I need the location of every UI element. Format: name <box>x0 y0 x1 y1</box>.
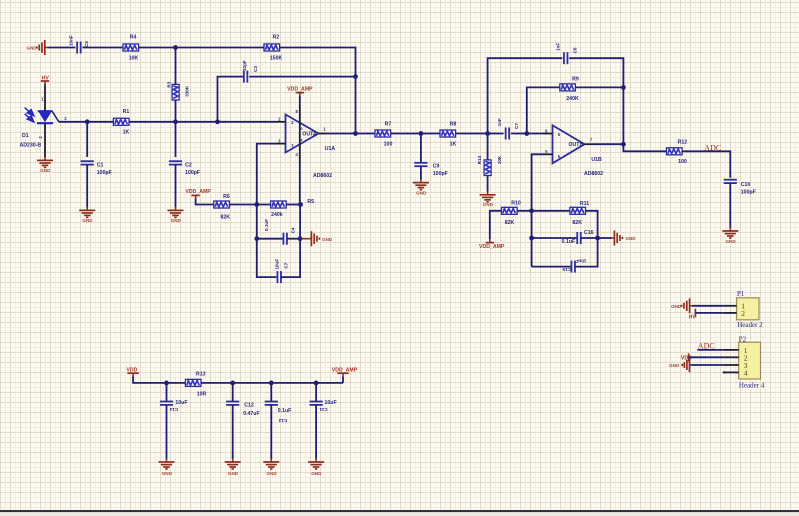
value 10uF (C6) <box>274 259 279 270</box>
junction output node <box>353 131 358 136</box>
wire C6 loop right <box>281 239 300 277</box>
wire R7 to R8 <box>391 133 440 135</box>
designator R11 <box>580 201 589 207</box>
wire R5 to ground vertical <box>286 204 300 206</box>
pin 2 P2 <box>724 353 748 362</box>
capacitor C6 <box>277 271 281 283</box>
resistor R9 <box>560 84 576 91</box>
power port VDD_AMP (R10) <box>479 239 505 250</box>
svg-text:0.1uF: 0.1uF <box>264 219 269 231</box>
power port VDD bottom rail <box>126 368 138 377</box>
header P1 <box>737 298 759 320</box>
svg-text:U1A: U1A <box>325 146 336 152</box>
svg-text:C5: C5 <box>84 41 89 47</box>
power port VDD_AMP rail right <box>332 368 358 383</box>
designator C4 <box>290 227 295 233</box>
ground GND under C1 <box>79 207 95 223</box>
wire U1A pin4 down to ground net <box>299 163 301 205</box>
value 1K (R1) <box>123 130 130 136</box>
designator C16 <box>584 230 594 236</box>
wire C9 upper <box>420 134 422 163</box>
wire VDD to P2 pin2 <box>689 356 724 358</box>
designator C6 <box>284 262 289 268</box>
ground GND at P2 pin3 <box>669 358 689 373</box>
svg-text:D1: D1 <box>22 133 29 139</box>
svg-text:150K: 150K <box>270 55 283 61</box>
junction C12 tap <box>230 381 235 386</box>
wire ground vertical segment <box>257 205 300 239</box>
svg-text:R12: R12 <box>678 139 688 145</box>
svg-text:GND: GND <box>671 304 682 309</box>
designator C14 <box>169 407 178 412</box>
pin 3 number U1A <box>278 138 294 148</box>
wire C14 upper <box>166 383 168 402</box>
wire C2 upper <box>175 122 177 157</box>
designator R2 <box>273 35 280 41</box>
wire R12 to C10 <box>682 151 730 178</box>
capacitor C16 <box>577 232 581 244</box>
wire C4 right <box>287 238 300 240</box>
designator C5 <box>84 41 89 47</box>
wire C11 lower <box>315 405 317 459</box>
svg-text:R14: R14 <box>477 155 482 164</box>
value 82K (R11) <box>572 220 582 226</box>
wire R3 bottom <box>175 100 177 122</box>
wire U1B output <box>595 143 624 145</box>
svg-text:82K: 82K <box>572 220 582 226</box>
svg-text:GND: GND <box>26 46 37 51</box>
svg-text:R5: R5 <box>307 199 314 205</box>
junction R14/feedback tap <box>485 131 490 136</box>
svg-text:100pF: 100pF <box>741 189 756 195</box>
value 10K (R4) <box>129 55 139 61</box>
junction R5 right <box>298 202 303 207</box>
value 100 (R12) <box>678 159 687 165</box>
pin 5 number U1B <box>545 149 561 159</box>
wire C3 to feedback vertical <box>249 76 355 78</box>
ground GND at P1 pin1 <box>671 298 692 313</box>
wire C15 right <box>575 238 598 267</box>
svg-text:C7: C7 <box>284 262 289 268</box>
wire R6 to R5 <box>229 204 270 206</box>
svg-text:10R: 10R <box>197 391 207 397</box>
wire C16 left <box>532 237 578 239</box>
svg-text:R11: R11 <box>580 201 589 207</box>
ground GND under D1 <box>37 157 53 173</box>
value 0.47uF (C12) <box>243 411 259 417</box>
resistor R11 <box>570 207 586 214</box>
wire GND to P1 pin1 <box>692 305 723 307</box>
designator C13 <box>278 418 287 423</box>
svg-text:C15: C15 <box>562 267 571 272</box>
svg-text:C12: C12 <box>244 402 254 408</box>
junction C13 tap <box>269 381 274 386</box>
svg-text:R6: R6 <box>223 194 230 200</box>
svg-text:GND: GND <box>82 218 93 223</box>
wire R8 to C7 <box>456 133 504 135</box>
svg-text:10uF: 10uF <box>175 400 187 406</box>
ground GND at C16 <box>598 231 637 246</box>
light arrows D1 <box>25 108 34 122</box>
wire C14 lower <box>166 405 168 459</box>
wire top feedback C8 <box>488 58 563 133</box>
junction C14 tap <box>164 381 169 386</box>
value AD230-B <box>20 142 42 148</box>
designator R14 <box>477 155 482 164</box>
svg-text:C10: C10 <box>741 182 751 188</box>
svg-text:R10: R10 <box>511 201 521 207</box>
value 33pF (C3) <box>242 60 247 71</box>
designator R10 <box>511 201 521 207</box>
power port VDD_AMP (U1A) <box>287 86 313 96</box>
svg-text:GND: GND <box>40 168 51 173</box>
svg-text:GND: GND <box>162 471 173 476</box>
ground GND top-left <box>26 40 47 55</box>
svg-text:10uF: 10uF <box>325 400 337 406</box>
photodiode D1 <box>37 111 59 123</box>
capacitor C7 series <box>506 128 510 140</box>
svg-text:240K: 240K <box>566 96 579 102</box>
svg-text:C8: C8 <box>572 47 577 53</box>
designator C9 <box>433 164 440 170</box>
svg-text:R9: R9 <box>572 77 579 83</box>
wire C11 upper <box>315 383 317 402</box>
resistor R5 <box>271 201 287 208</box>
svg-text:100pF: 100pF <box>185 170 200 176</box>
sheet bottom border <box>0 510 799 512</box>
junction C3 tap <box>215 119 220 124</box>
designator R3 <box>167 81 172 87</box>
svg-text:0.1uF: 0.1uF <box>278 408 292 414</box>
pin 1 number U1A <box>323 127 326 132</box>
value 82K (R10) <box>505 220 515 226</box>
resistor R4 <box>123 44 139 51</box>
svg-text:R7: R7 <box>385 121 392 127</box>
svg-text:33pF: 33pF <box>242 60 247 71</box>
value 10K (R14) <box>497 155 502 164</box>
designator C7 <box>514 123 519 129</box>
wire R10 to R11 <box>517 210 569 212</box>
svg-text:10K: 10K <box>129 55 139 61</box>
junction R9 right <box>621 85 626 90</box>
label OUTA <box>302 132 317 138</box>
svg-text:R3: R3 <box>167 81 172 87</box>
capacitor C11 <box>310 402 323 405</box>
designator R5 <box>307 199 314 205</box>
wire ADC to P2 pin1 <box>697 349 723 351</box>
value 1K (R8) <box>450 142 457 148</box>
designator D1 <box>22 133 29 139</box>
junction R10-R11 node <box>529 208 534 213</box>
designator C11 <box>319 407 328 412</box>
designator R9 <box>572 77 579 83</box>
svg-text:GND: GND <box>171 218 182 223</box>
wire C4 left <box>257 238 284 240</box>
capacitor C10 <box>724 180 737 183</box>
pin 7 number U1B <box>590 137 593 142</box>
wire GND to P2 pin3 <box>690 364 723 366</box>
wire VDD_AMP to R10 <box>490 211 502 239</box>
svg-text:0.47uF: 0.47uF <box>243 411 259 417</box>
wire R9 branch <box>527 87 560 133</box>
designator U1B <box>591 157 602 163</box>
designator P1 <box>737 290 745 298</box>
capacitor C2 <box>169 161 182 164</box>
svg-text:100: 100 <box>678 159 687 165</box>
designator C1 <box>97 163 104 169</box>
junction C2 tap <box>173 119 178 124</box>
capacitor C8 <box>564 52 568 64</box>
value 0.1uF (C4) <box>264 219 269 231</box>
pin 6 number U1B <box>545 128 561 137</box>
svg-text:4: 4 <box>744 369 748 378</box>
designator R1 <box>123 109 130 115</box>
svg-text:240k: 240k <box>271 212 283 218</box>
svg-text:C14: C14 <box>169 407 178 412</box>
svg-text:C1: C1 <box>97 163 104 169</box>
capacitor C3 <box>244 71 248 83</box>
wire C8 to right vertical <box>569 58 623 144</box>
svg-text:10K: 10K <box>497 155 502 164</box>
value Header 4 (P2) <box>739 381 765 389</box>
svg-text:C4: C4 <box>290 227 295 233</box>
value 100pF (C1) <box>97 170 112 176</box>
designator C3 <box>253 66 258 72</box>
svg-text:P2: P2 <box>739 335 747 343</box>
svg-text:R2: R2 <box>273 35 280 41</box>
svg-text:AD8602: AD8602 <box>313 173 332 179</box>
wire R14 upper <box>487 134 489 160</box>
pin 4 number U1A <box>295 138 303 157</box>
pin 2 number U1A <box>278 117 294 126</box>
junction C3 right on feedback vertical <box>353 74 358 79</box>
capacitor C13 <box>265 402 278 405</box>
value 330K (R3) <box>184 85 189 97</box>
junction C4 right <box>298 236 303 241</box>
wire C16 right <box>581 237 598 239</box>
header P2 <box>739 342 761 379</box>
junction node A at R5 left <box>254 202 259 207</box>
wire GND to C5 <box>47 47 75 49</box>
label OUTB <box>569 142 584 148</box>
ground GND at C4 <box>301 231 333 246</box>
svg-text:ADC: ADC <box>704 143 721 152</box>
svg-text:C16: C16 <box>584 230 594 236</box>
svg-text:VDD_AMP: VDD_AMP <box>287 86 313 92</box>
svg-text:GND: GND <box>266 471 277 476</box>
wire R1 to U1A pin2 <box>129 121 276 123</box>
power port HV (P1 pin2) <box>689 309 697 321</box>
designator C10 <box>741 182 751 188</box>
value 1nF (C8) <box>555 43 560 51</box>
wire R3 top <box>175 48 177 85</box>
svg-text:GND: GND <box>669 363 680 368</box>
value 0.1uF (C13) <box>278 408 292 414</box>
junction C16 right node <box>595 236 600 241</box>
wire C5 to R4 <box>82 47 123 49</box>
svg-text:GND: GND <box>725 239 736 244</box>
pin 1 label D1 <box>41 97 44 102</box>
designator P2 <box>739 335 747 343</box>
wire HV to P1 pin2 <box>695 312 723 314</box>
value Header 2 (P1) <box>737 321 763 329</box>
junction pin6 node <box>524 131 529 136</box>
net label ADC <box>704 143 721 152</box>
value 100 (R7) <box>384 142 393 148</box>
wire VDD_AMP to U1A pin8 <box>299 96 301 105</box>
wire C6 loop left <box>257 239 277 277</box>
value 240K (R9) <box>566 96 579 102</box>
value 1nF (C7) <box>497 118 502 126</box>
svg-text:C11: C11 <box>319 407 328 412</box>
wire C3 branch up <box>218 77 244 122</box>
wire C9 lower <box>420 166 422 179</box>
ground GND under C9 <box>413 179 429 195</box>
svg-text:VDD_AMP: VDD_AMP <box>185 189 211 195</box>
wire D1 cathode to ground <box>44 123 46 157</box>
svg-text:10nF: 10nF <box>69 35 74 46</box>
value 240k (R5) <box>271 212 283 218</box>
op-amp U1A <box>276 105 329 163</box>
value AD8602 (U1B) <box>584 171 603 177</box>
svg-text:GND: GND <box>228 471 239 476</box>
capacitor C9 <box>414 163 427 166</box>
svg-text:C13: C13 <box>278 418 287 423</box>
wire U1B pin5 branch <box>532 154 543 266</box>
svg-text:P1: P1 <box>737 290 745 298</box>
wire R2 to feedback corner <box>280 48 356 134</box>
wire C12 lower <box>232 405 234 459</box>
svg-text:VDD_AMP: VDD_AMP <box>332 368 358 374</box>
svg-text:1nF: 1nF <box>555 43 560 51</box>
power port VDD_AMP (R6) <box>185 189 211 198</box>
junction C16 left node <box>529 236 534 241</box>
resistor R2 <box>264 44 280 51</box>
svg-text:OUTB: OUTB <box>569 142 584 148</box>
value AD8602 (U1A) <box>313 173 332 179</box>
svg-text:0.1uF: 0.1uF <box>562 239 576 245</box>
wire C10 lower <box>729 183 731 228</box>
svg-text:100pF: 100pF <box>433 171 448 177</box>
value 10uF (C14) <box>175 400 187 406</box>
svg-text:100pF: 100pF <box>97 170 112 176</box>
resistor R12 <box>667 148 683 155</box>
svg-text:R1: R1 <box>123 109 130 115</box>
svg-text:GND: GND <box>322 237 333 242</box>
wire C1 lower <box>86 165 88 208</box>
svg-text:2: 2 <box>741 309 745 318</box>
resistor R3 330K vertical <box>172 84 179 100</box>
wire C7 to U1B pin6 <box>511 133 543 135</box>
designator U1A <box>325 146 336 152</box>
designator R6 <box>223 194 230 200</box>
svg-text:R13: R13 <box>196 372 206 378</box>
power port HV (D1) <box>41 75 50 84</box>
value 100pF (C9) <box>433 171 448 177</box>
designator R12 <box>678 139 688 145</box>
net label ADC (P2) <box>698 342 715 351</box>
svg-text:82K: 82K <box>505 220 515 226</box>
pin 4 label D1 <box>38 136 43 139</box>
wire VDD_AMP to R6 <box>196 198 214 204</box>
wire C15 left <box>532 266 572 268</box>
pin 1 P1 <box>724 302 746 311</box>
svg-text:GND: GND <box>311 471 322 476</box>
ground GND under C2 <box>168 207 184 223</box>
ground GND under C10 <box>722 228 738 244</box>
wire C12 upper <box>232 383 234 402</box>
capacitor C14 <box>160 402 173 405</box>
wire R11 to C16 right vertical <box>586 211 598 238</box>
svg-text:GND: GND <box>416 190 427 195</box>
value 10uF (C11) <box>325 400 337 406</box>
value label 10nF (C5) <box>69 35 74 46</box>
capacitor C5 <box>77 42 81 54</box>
junction C11 tap <box>314 381 319 386</box>
value 82K (R6) <box>221 215 231 221</box>
designator R13 <box>196 372 206 378</box>
svg-text:C2: C2 <box>185 163 192 169</box>
pin 4 P2 stub <box>723 369 748 378</box>
pin 1 P2 <box>724 346 748 355</box>
designator C15 <box>562 267 571 272</box>
wire C1 upper <box>86 122 88 157</box>
wire R9 to right vertical <box>576 86 624 88</box>
designator R8 <box>450 121 457 127</box>
svg-text:330K: 330K <box>184 85 189 97</box>
junction C9 tap <box>419 131 424 136</box>
pin 3 P2 <box>724 361 748 370</box>
designator C2 <box>185 163 192 169</box>
resistor R1 <box>113 118 129 125</box>
svg-text:GND: GND <box>625 236 636 241</box>
junction top of R3 <box>173 45 178 50</box>
svg-text:10uF: 10uF <box>575 258 586 263</box>
value 150K (R2) <box>270 55 283 61</box>
resistor R14 vertical <box>484 160 491 176</box>
wire rail right of R13 <box>201 382 343 384</box>
wire HV to D1 <box>44 85 46 111</box>
svg-text:GND: GND <box>483 202 494 207</box>
svg-text:Header 4: Header 4 <box>739 381 765 389</box>
ground GND under C11 <box>308 459 324 476</box>
junction C4 left <box>254 236 259 241</box>
svg-text:82K: 82K <box>221 215 231 221</box>
wire D1 to R1 input net <box>59 121 114 123</box>
svg-text:HV: HV <box>689 315 697 321</box>
designator C8 <box>572 47 577 53</box>
designator R7 <box>385 121 392 127</box>
pin 2 P1 <box>724 309 746 318</box>
svg-text:1K: 1K <box>450 142 457 148</box>
wire R4 to R2 <box>139 47 264 49</box>
svg-text:100: 100 <box>384 142 393 148</box>
power port VDD (P2 pin2) <box>681 353 692 361</box>
resistor R6 <box>214 201 230 208</box>
wire VDD to rail <box>133 376 185 383</box>
ground GND under C13 <box>263 459 279 476</box>
wire U1A pin3 to node <box>257 144 276 205</box>
svg-text:C3: C3 <box>253 66 258 72</box>
ground GND under C14 <box>159 459 175 476</box>
junction C1 tap <box>85 119 90 124</box>
wire output to R12 <box>623 144 666 151</box>
designator R4 <box>130 35 137 41</box>
resistor R7 <box>375 130 391 137</box>
value 100pF (C2) <box>185 170 200 176</box>
svg-text:U1B: U1B <box>591 157 602 163</box>
resistor R13 <box>185 379 201 386</box>
